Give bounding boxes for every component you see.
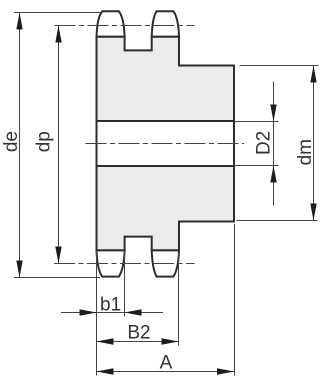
- D2 lower arrow (pointing up): [270, 166, 276, 183]
- svg-text:de: de: [1, 131, 22, 152]
- dm bottom arrow: [310, 204, 316, 221]
- hub right edge through bore: [233, 120, 235, 167]
- D2 bottom extension line: [235, 165, 279, 167]
- bore (white band): [98, 122, 234, 165]
- A left arrow (pointing left): [97, 368, 114, 374]
- dm bottom extension line: [237, 220, 318, 222]
- tooth top-left (white): [97, 11, 125, 37]
- B2 right extension line: [178, 252, 180, 346]
- main horizontal centerline: [86, 143, 245, 145]
- bore bottom line: [97, 165, 235, 167]
- tooth bottom-right (white): [152, 250, 179, 276]
- dp dimension line: [58, 26, 60, 264]
- dm dimension line: [313, 66, 315, 221]
- A dimension line: [97, 371, 235, 373]
- top pitch centerline: [55, 25, 195, 27]
- de top arrow: [16, 13, 22, 30]
- b1 left arrow (pointing right): [80, 309, 97, 315]
- dm top arrow: [310, 66, 316, 83]
- dp top arrow: [55, 26, 61, 43]
- B2 left arrow (pointing left): [97, 338, 114, 344]
- body left edge through bore: [96, 120, 98, 167]
- de dimension line: [19, 13, 21, 278]
- de bottom arrow: [16, 261, 22, 278]
- svg-text:D2: D2: [253, 131, 274, 155]
- tooth bottom-left (white): [97, 250, 125, 276]
- bore top line: [97, 120, 235, 122]
- svg-text:A: A: [160, 353, 173, 374]
- tooth top-right (white): [152, 11, 179, 37]
- left vertical extension line (b1/B2/A): [96, 251, 98, 376]
- sprocket body (sectioned, gray): [97, 37, 235, 250]
- svg-text:dp: dp: [34, 131, 55, 152]
- B2 dimension line: [97, 341, 179, 343]
- b1 dimension line: [61, 312, 163, 314]
- A right arrow (pointing right): [217, 368, 234, 374]
- A right extension line: [234, 224, 236, 376]
- b1 right extension line: [124, 251, 126, 317]
- dp bottom arrow: [55, 247, 61, 264]
- svg-text:b1: b1: [100, 294, 121, 315]
- dm top extension line: [240, 65, 319, 67]
- svg-text:B2: B2: [127, 322, 150, 343]
- de bottom extension line: [14, 277, 100, 279]
- D2 top extension line: [235, 121, 279, 123]
- b1 right arrow (pointing left): [125, 309, 142, 315]
- bottom pitch centerline: [54, 263, 195, 265]
- svg-text:dm: dm: [295, 139, 316, 165]
- D2 upper arrow (pointing down): [270, 105, 276, 122]
- D2 dimension line: [273, 82, 275, 206]
- B2 right arrow (pointing right): [162, 338, 179, 344]
- de top extension line: [14, 12, 101, 14]
